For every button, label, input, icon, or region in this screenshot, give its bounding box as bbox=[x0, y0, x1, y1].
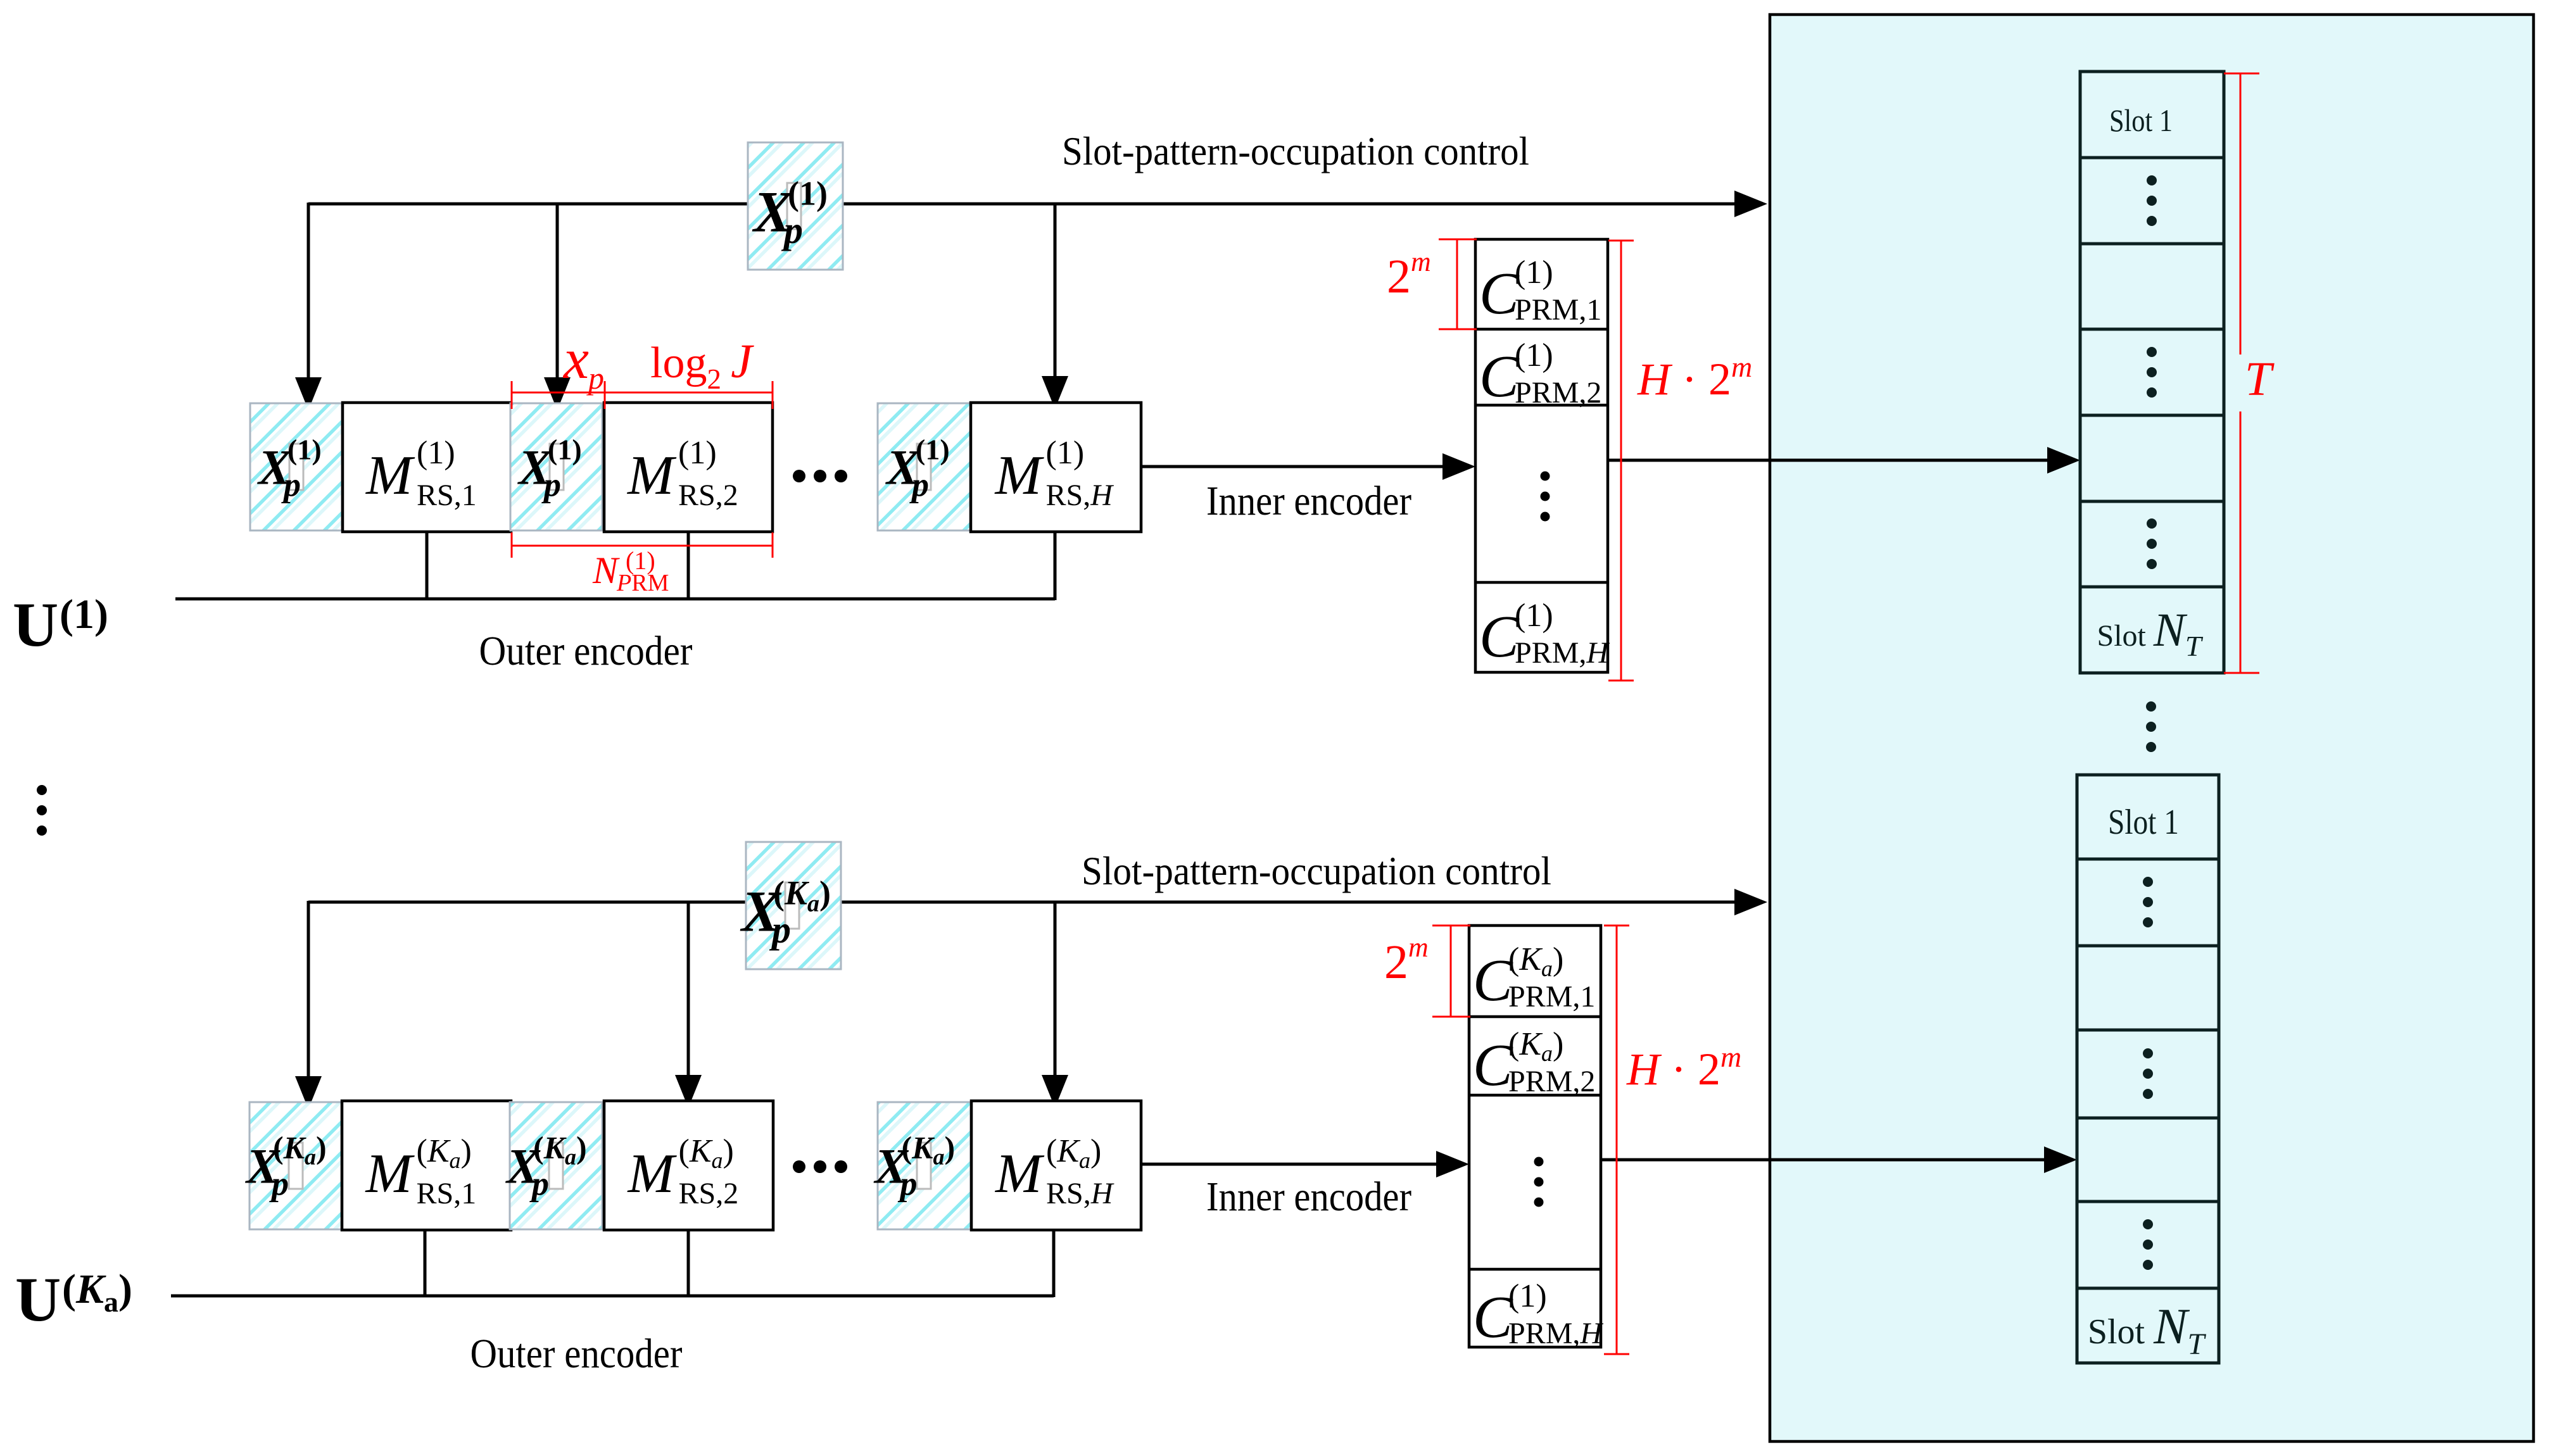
svg-text:m: m bbox=[1411, 246, 1431, 277]
vertical dots in C column (top) bbox=[1541, 472, 1550, 481]
red bracket H*2^m (bottom) bbox=[1604, 925, 1629, 927]
arrowhead into M_RS,2 (bottom) bbox=[675, 1075, 702, 1108]
svg-text:PRM: PRM bbox=[616, 570, 669, 596]
svg-text:(1): (1) bbox=[1515, 598, 1553, 634]
svg-text:T: T bbox=[2245, 353, 2275, 406]
dots between branches (left) bbox=[37, 785, 47, 795]
svg-text:(1): (1) bbox=[678, 435, 717, 471]
svg-text:p: p bbox=[586, 360, 604, 396]
svg-text:(Ka): (Ka) bbox=[417, 1133, 472, 1173]
label C_PRM,1(Ka) bbox=[1473, 941, 1595, 1014]
svg-text:Slot 1: Slot 1 bbox=[2109, 103, 2173, 138]
block M_RS,1(1) bbox=[343, 403, 511, 532]
svg-text:C: C bbox=[1479, 604, 1520, 670]
wire C column to slot column (bottom) bbox=[1602, 1158, 2048, 1162]
svg-text:p: p bbox=[769, 909, 791, 951]
svg-text:p: p bbox=[269, 1165, 289, 1203]
svg-text:(Ka): (Ka) bbox=[679, 1133, 734, 1173]
slot column (top) bbox=[2080, 72, 2224, 673]
svg-text:Slot-pattern-occupation contro: Slot-pattern-occupation control bbox=[1062, 129, 1529, 173]
red bracket T bbox=[2224, 73, 2259, 75]
svg-text:PRM,H: PRM,H bbox=[1508, 1317, 1603, 1350]
red bracket 2^m (top) bbox=[1439, 239, 1477, 241]
wire control line 1 (top) bbox=[308, 203, 1736, 206]
svg-text:m: m bbox=[1408, 932, 1429, 963]
svg-text:(Ka): (Ka) bbox=[773, 874, 831, 917]
svg-text:Slot-pattern-occupation contro: Slot-pattern-occupation control bbox=[1082, 848, 1551, 893]
arrowhead control line 2 into panel bbox=[1734, 889, 1767, 915]
svg-text:log2 J: log2 J bbox=[650, 335, 754, 395]
svg-text:U: U bbox=[15, 1264, 61, 1334]
svg-text:M: M bbox=[994, 445, 1045, 506]
wire stub M_RS,H to bus (bottom) bbox=[1052, 1231, 1056, 1297]
wire drop to M_RS,2 (bottom) bbox=[687, 902, 690, 1077]
red bracket 2^m (bottom) bbox=[1432, 925, 1470, 927]
svg-text:(Ka): (Ka) bbox=[1046, 1133, 1101, 1173]
wire drop to X_p box 1 (top) bbox=[307, 203, 310, 380]
arrowhead into C column (top) bbox=[1442, 453, 1475, 480]
svg-text:(1): (1) bbox=[60, 591, 108, 637]
svg-text:C: C bbox=[1473, 948, 1513, 1014]
svg-text:M: M bbox=[365, 1143, 415, 1205]
svg-text:Slot 1: Slot 1 bbox=[2108, 803, 2179, 842]
svg-text:C: C bbox=[1473, 1284, 1513, 1350]
red dimension line x_p / log2 J (top) bbox=[512, 392, 773, 394]
label C_PRM,H(1) (bottom) bbox=[1473, 1278, 1603, 1350]
svg-text:p: p bbox=[781, 210, 803, 251]
dots between slot columns bbox=[2146, 701, 2156, 712]
svg-text:C: C bbox=[1479, 261, 1520, 327]
block M_RS,1(Ka) bbox=[342, 1101, 511, 1230]
cyan slot-frame panel bbox=[1770, 15, 2534, 1441]
svg-text:PRM,H: PRM,H bbox=[1515, 636, 1610, 670]
svg-text:(Ka): (Ka) bbox=[902, 1130, 956, 1170]
svg-text:M: M bbox=[626, 445, 677, 506]
svg-text:U: U bbox=[13, 589, 58, 660]
label C_PRM,1(1) bbox=[1479, 254, 1601, 327]
block X_p(Ka) pattern segment H (bottom) bbox=[874, 1102, 971, 1229]
dots slot cell 2 (bottom column) bbox=[2143, 877, 2153, 887]
wire drop to M_RS,H (top) bbox=[1054, 204, 1057, 379]
label C_PRM,H(1) bbox=[1479, 598, 1610, 670]
svg-text:Inner encoder: Inner encoder bbox=[1206, 1174, 1411, 1220]
wire U(1) bus bbox=[175, 598, 1055, 601]
arrowhead into M_RS,H (bottom) bbox=[1042, 1075, 1068, 1108]
block M_RS,2(Ka) bbox=[604, 1101, 773, 1230]
wire stub M_RS,H to bus (top) bbox=[1054, 533, 1057, 600]
svg-text:RS,2: RS,2 bbox=[678, 479, 738, 512]
label C_PRM,2(1) bbox=[1479, 337, 1601, 410]
label C_PRM,2(Ka) bbox=[1473, 1026, 1595, 1098]
block X_p(1) on control line (top) bbox=[748, 142, 843, 270]
svg-text:RS,H: RS,H bbox=[1046, 479, 1114, 512]
arrowhead into X_p box 1 (bottom) bbox=[295, 1076, 322, 1109]
svg-text:(1): (1) bbox=[788, 175, 828, 213]
wire stub M_RS,1 to bus (bottom) bbox=[424, 1231, 427, 1296]
wire inner-encoder arrow (top) bbox=[1141, 465, 1446, 468]
arrowhead into slot column (top) bbox=[2047, 447, 2080, 474]
arrowhead into X_p box 1 (top) bbox=[295, 377, 322, 410]
block M_RS,2(1) bbox=[604, 403, 773, 532]
arrowhead into slot column (bottom) bbox=[2044, 1146, 2077, 1173]
svg-text:(1): (1) bbox=[1508, 1278, 1547, 1314]
ellipsis between blocks (bottom row) bbox=[793, 1160, 805, 1173]
svg-text:M: M bbox=[627, 1143, 678, 1205]
svg-text:Inner encoder: Inner encoder bbox=[1206, 478, 1411, 524]
block X_p(Ka) pattern segment 1 (bottom) bbox=[245, 1102, 342, 1229]
svg-text:PRM,2: PRM,2 bbox=[1508, 1065, 1595, 1098]
red dimension line N_PRM (top) bbox=[512, 545, 773, 547]
svg-text:C: C bbox=[1479, 344, 1520, 410]
wire drop to X_p box 1 (bottom) bbox=[307, 901, 310, 1078]
svg-text:Outer encoder: Outer encoder bbox=[479, 628, 693, 674]
block X_p(1) pattern segment H (top) bbox=[878, 403, 971, 530]
wire control line 2 (bottom) bbox=[308, 901, 1736, 904]
arrowhead into M_RS,H (top) bbox=[1042, 376, 1068, 409]
block M_RS,H(Ka) bbox=[971, 1101, 1141, 1230]
C_PRM column (bottom) bbox=[1469, 926, 1601, 1347]
svg-text:(1): (1) bbox=[417, 435, 455, 471]
svg-text:(1): (1) bbox=[1046, 435, 1085, 471]
svg-text:(Ka): (Ka) bbox=[1508, 1026, 1563, 1066]
svg-text:p: p bbox=[281, 466, 301, 504]
svg-text:RS,1: RS,1 bbox=[417, 1177, 477, 1210]
svg-text:(Ka): (Ka) bbox=[62, 1266, 132, 1318]
wire drop to M_RS,H (bottom) bbox=[1054, 902, 1057, 1077]
svg-text:PRM,1: PRM,1 bbox=[1515, 293, 1601, 327]
ellipsis between blocks (top row) bbox=[793, 470, 805, 482]
svg-text:RS,2: RS,2 bbox=[679, 1177, 739, 1210]
svg-text:(1): (1) bbox=[916, 434, 950, 466]
svg-text:(Ka): (Ka) bbox=[533, 1130, 587, 1170]
svg-text:(Ka): (Ka) bbox=[273, 1130, 327, 1170]
wire U(Ka) bus bbox=[171, 1295, 1054, 1298]
svg-text:(1): (1) bbox=[1515, 254, 1553, 291]
svg-text:p: p bbox=[898, 1165, 918, 1203]
svg-text:(1): (1) bbox=[548, 434, 582, 466]
wire stub M_RS,2 to bus (bottom) bbox=[687, 1231, 690, 1296]
svg-text:M: M bbox=[365, 445, 415, 506]
wire drop to X_p box 2 (top) bbox=[556, 204, 559, 380]
svg-text:PRM,2: PRM,2 bbox=[1515, 376, 1601, 410]
dots slot cell 6 (top column) bbox=[2147, 518, 2157, 529]
wire C column to slot column (top) bbox=[1609, 459, 2051, 462]
arrowhead into X_p box 2 (top) bbox=[544, 377, 571, 410]
svg-text:M: M bbox=[994, 1143, 1045, 1205]
svg-text:RS,H: RS,H bbox=[1046, 1177, 1114, 1210]
svg-text:N: N bbox=[592, 549, 620, 591]
block X_p(1) pattern segment 2 (top) bbox=[510, 403, 602, 530]
vertical dots in C column (bottom) bbox=[1534, 1157, 1544, 1167]
block X_p(Ka) pattern segment 2 (bottom) bbox=[505, 1102, 602, 1229]
wire inner-encoder arrow (bottom) bbox=[1141, 1163, 1440, 1166]
wire stub M_RS,2 to bus (top) bbox=[687, 533, 690, 599]
svg-text:2: 2 bbox=[1387, 250, 1411, 303]
arrowhead into C column (bottom) bbox=[1436, 1151, 1469, 1177]
svg-text:RS,1: RS,1 bbox=[417, 479, 477, 512]
block X_p(1) pattern segment 1 (top) bbox=[250, 403, 342, 530]
svg-text:2: 2 bbox=[1384, 936, 1408, 989]
red bracket H*2^m (top) bbox=[1608, 240, 1634, 242]
svg-text:p: p bbox=[909, 466, 929, 504]
svg-text:(Ka): (Ka) bbox=[1508, 941, 1563, 981]
svg-text:(1): (1) bbox=[1515, 337, 1553, 373]
dots slot cell 2 (top column) bbox=[2147, 175, 2157, 185]
C_PRM column (top) bbox=[1475, 239, 1608, 672]
svg-text:p: p bbox=[541, 466, 561, 504]
svg-text:PRM,1: PRM,1 bbox=[1508, 980, 1595, 1014]
block M_RS,H(1) bbox=[971, 403, 1141, 532]
svg-text:x: x bbox=[562, 328, 589, 391]
svg-text:Outer encoder: Outer encoder bbox=[470, 1331, 683, 1377]
wire stub M_RS,1 to bus (top) bbox=[426, 533, 429, 599]
slot column (bottom) bbox=[2077, 775, 2219, 1363]
dots slot cell 4 (top column) bbox=[2147, 347, 2157, 357]
dots slot cell 6 (bottom column) bbox=[2143, 1219, 2153, 1229]
svg-text:C: C bbox=[1473, 1032, 1513, 1098]
block X_p(Ka) on control line (bottom) bbox=[740, 842, 841, 969]
arrowhead control line 1 into panel bbox=[1734, 191, 1767, 217]
svg-text:p: p bbox=[529, 1165, 549, 1203]
svg-text:(1): (1) bbox=[287, 434, 322, 466]
dots slot cell 4 (bottom column) bbox=[2143, 1048, 2153, 1058]
